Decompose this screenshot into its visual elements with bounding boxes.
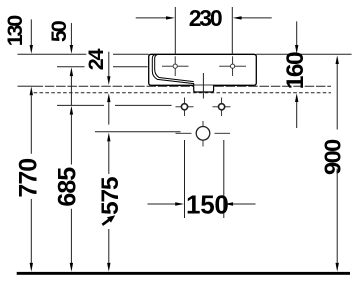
basin body <box>149 54 257 85</box>
node line B right segment <box>113 66 148 68</box>
fixing hole 1 <box>176 98 194 117</box>
wire dashed line lower (dash-2) <box>34 92 331 94</box>
dimension 50 line and arrow <box>70 23 72 46</box>
fixing hole 2 <box>213 98 231 117</box>
dimension 230 right lead and arrow <box>241 17 272 19</box>
dimension 50 lower arrow (up to line B) <box>70 67 73 76</box>
svg-text:50: 50 <box>47 20 71 42</box>
dimension 130 line and arrow <box>30 19 32 46</box>
svg-text:900: 900 <box>319 139 345 175</box>
node rim level line mid segment <box>113 53 149 55</box>
svg-text:160: 160 <box>282 52 309 89</box>
floor line <box>17 272 350 275</box>
dimension 150 right lead and arrow <box>224 202 233 205</box>
wire dashed line upper (wall reference dash-1) <box>18 85 34 87</box>
dimension 24 up arrow (to dash-2) <box>107 93 110 102</box>
dimension 685 upper arrow at line C <box>70 106 73 115</box>
dimension 150 extension line left <box>184 140 186 218</box>
svg-text:24: 24 <box>84 49 108 71</box>
svg-text:685: 685 <box>54 167 82 207</box>
dimension 24 line and down arrow <box>108 52 110 77</box>
575 slant arrow glyph <box>100 213 117 228</box>
drain circle (siphon) <box>176 121 231 147</box>
basin cut profile inner line <box>155 55 194 82</box>
basin cut profile outer line <box>152 55 193 86</box>
dimension 160 lower arrow and line <box>295 93 298 102</box>
tap hole crosshair 1 <box>162 56 189 76</box>
dimension 160 upper line and arrow <box>296 21 298 46</box>
node line D (575 target) <box>95 131 181 133</box>
svg-text:130: 130 <box>3 15 27 47</box>
dimension 230 extension line right <box>231 7 233 54</box>
dimension 900 lower line and floor arrow <box>336 169 338 264</box>
node rim level line right segment <box>256 53 351 55</box>
svg-text:230: 230 <box>189 5 222 31</box>
dimension 575 lower line and floor arrow <box>108 229 110 264</box>
dimension 770 lower line and floor arrow <box>30 199 32 264</box>
drain box below basin <box>194 85 214 92</box>
node line B left segment <box>57 66 85 68</box>
dimension 770 upper arrow at dash line <box>30 87 33 96</box>
dimension 230 left lead and arrow <box>136 17 167 19</box>
svg-text:575: 575 <box>97 177 124 215</box>
dimension 230 extension line left <box>174 7 176 54</box>
tap hole crosshair 2 <box>219 56 246 76</box>
svg-text:770: 770 <box>15 159 43 198</box>
dimension 150 extension line right <box>223 140 225 218</box>
node line C (685 target) <box>57 104 104 106</box>
svg-text:150: 150 <box>186 190 228 220</box>
dimension 685 lower line and floor arrow <box>70 209 72 264</box>
node rim level line left segment <box>18 53 87 55</box>
dimension 575 upper arrow at line D <box>107 133 110 142</box>
drain vertical center line <box>202 73 204 99</box>
dimension 900 upper arrow at rim line <box>336 55 339 64</box>
dimension 150 left lead and arrow <box>148 203 177 205</box>
